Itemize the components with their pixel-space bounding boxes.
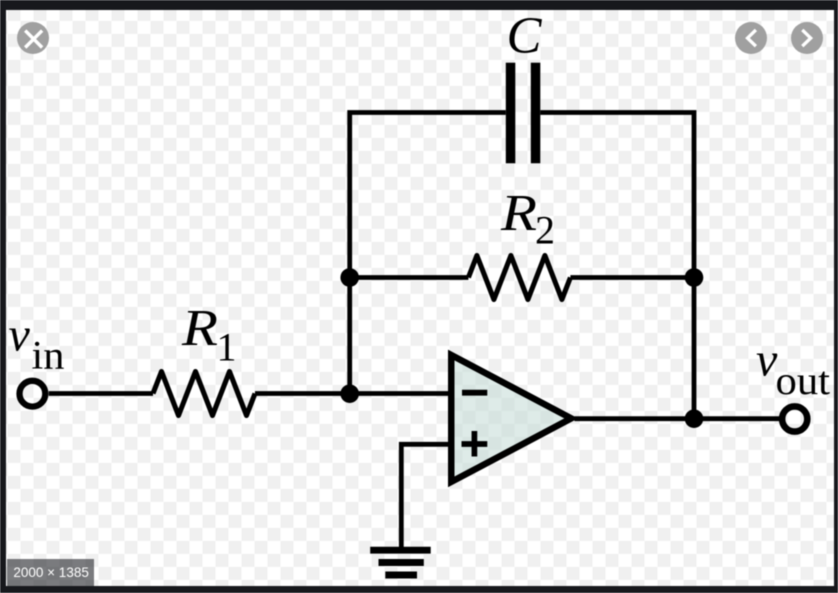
ground symbol bbox=[370, 550, 431, 575]
previous image button bbox=[735, 22, 767, 54]
input terminal (v_in port) bbox=[20, 381, 46, 407]
svg-text:1: 1 bbox=[217, 325, 237, 370]
op-amp non-inverting input marker (plus) bbox=[462, 431, 488, 457]
node B junction dot (R2 left) bbox=[340, 268, 359, 287]
resistor R1 bbox=[153, 372, 255, 416]
svg-text:R: R bbox=[500, 185, 537, 242]
wire: feedback left vertical from node A up to capacitor branch bbox=[350, 113, 506, 394]
output terminal (v_out port) bbox=[782, 406, 807, 431]
wire: op-amp output to output terminal bbox=[575, 416, 780, 421]
next image button bbox=[791, 22, 823, 54]
wire: node A branch to resistor R2 bbox=[350, 275, 469, 280]
resistor R2 bbox=[468, 256, 570, 300]
svg-text:C: C bbox=[507, 8, 543, 65]
node D junction dot (output) bbox=[685, 409, 704, 428]
svg-text:in: in bbox=[32, 333, 65, 378]
wire: R2 to right vertical rail bbox=[570, 275, 694, 280]
capacitor C left plate bbox=[506, 63, 516, 164]
wire: capacitor right plate to right vertical rail, down to output node bbox=[540, 113, 694, 419]
wire: R1 to op-amp inverting input (through node A) bbox=[255, 391, 452, 396]
image dimensions label bbox=[7, 559, 94, 586]
wire: op-amp non-inverting input to ground bbox=[401, 444, 452, 547]
svg-text:2: 2 bbox=[535, 207, 555, 252]
label v_out bbox=[756, 333, 830, 403]
label R2 bbox=[500, 185, 555, 252]
node A junction dot bbox=[340, 384, 359, 403]
capacitor C right plate bbox=[531, 63, 541, 164]
svg-text:R: R bbox=[181, 300, 218, 357]
label R1 bbox=[181, 300, 237, 370]
node C junction dot (R2 right) bbox=[685, 268, 704, 287]
op-amp U1 triangle bbox=[451, 355, 571, 482]
label v_in bbox=[9, 309, 65, 378]
svg-text:v: v bbox=[9, 309, 31, 362]
wire: input terminal to R1 bbox=[49, 391, 153, 396]
close button bbox=[17, 22, 49, 54]
svg-text:out: out bbox=[776, 358, 831, 403]
op-amp inverting input marker (minus) bbox=[462, 390, 487, 396]
